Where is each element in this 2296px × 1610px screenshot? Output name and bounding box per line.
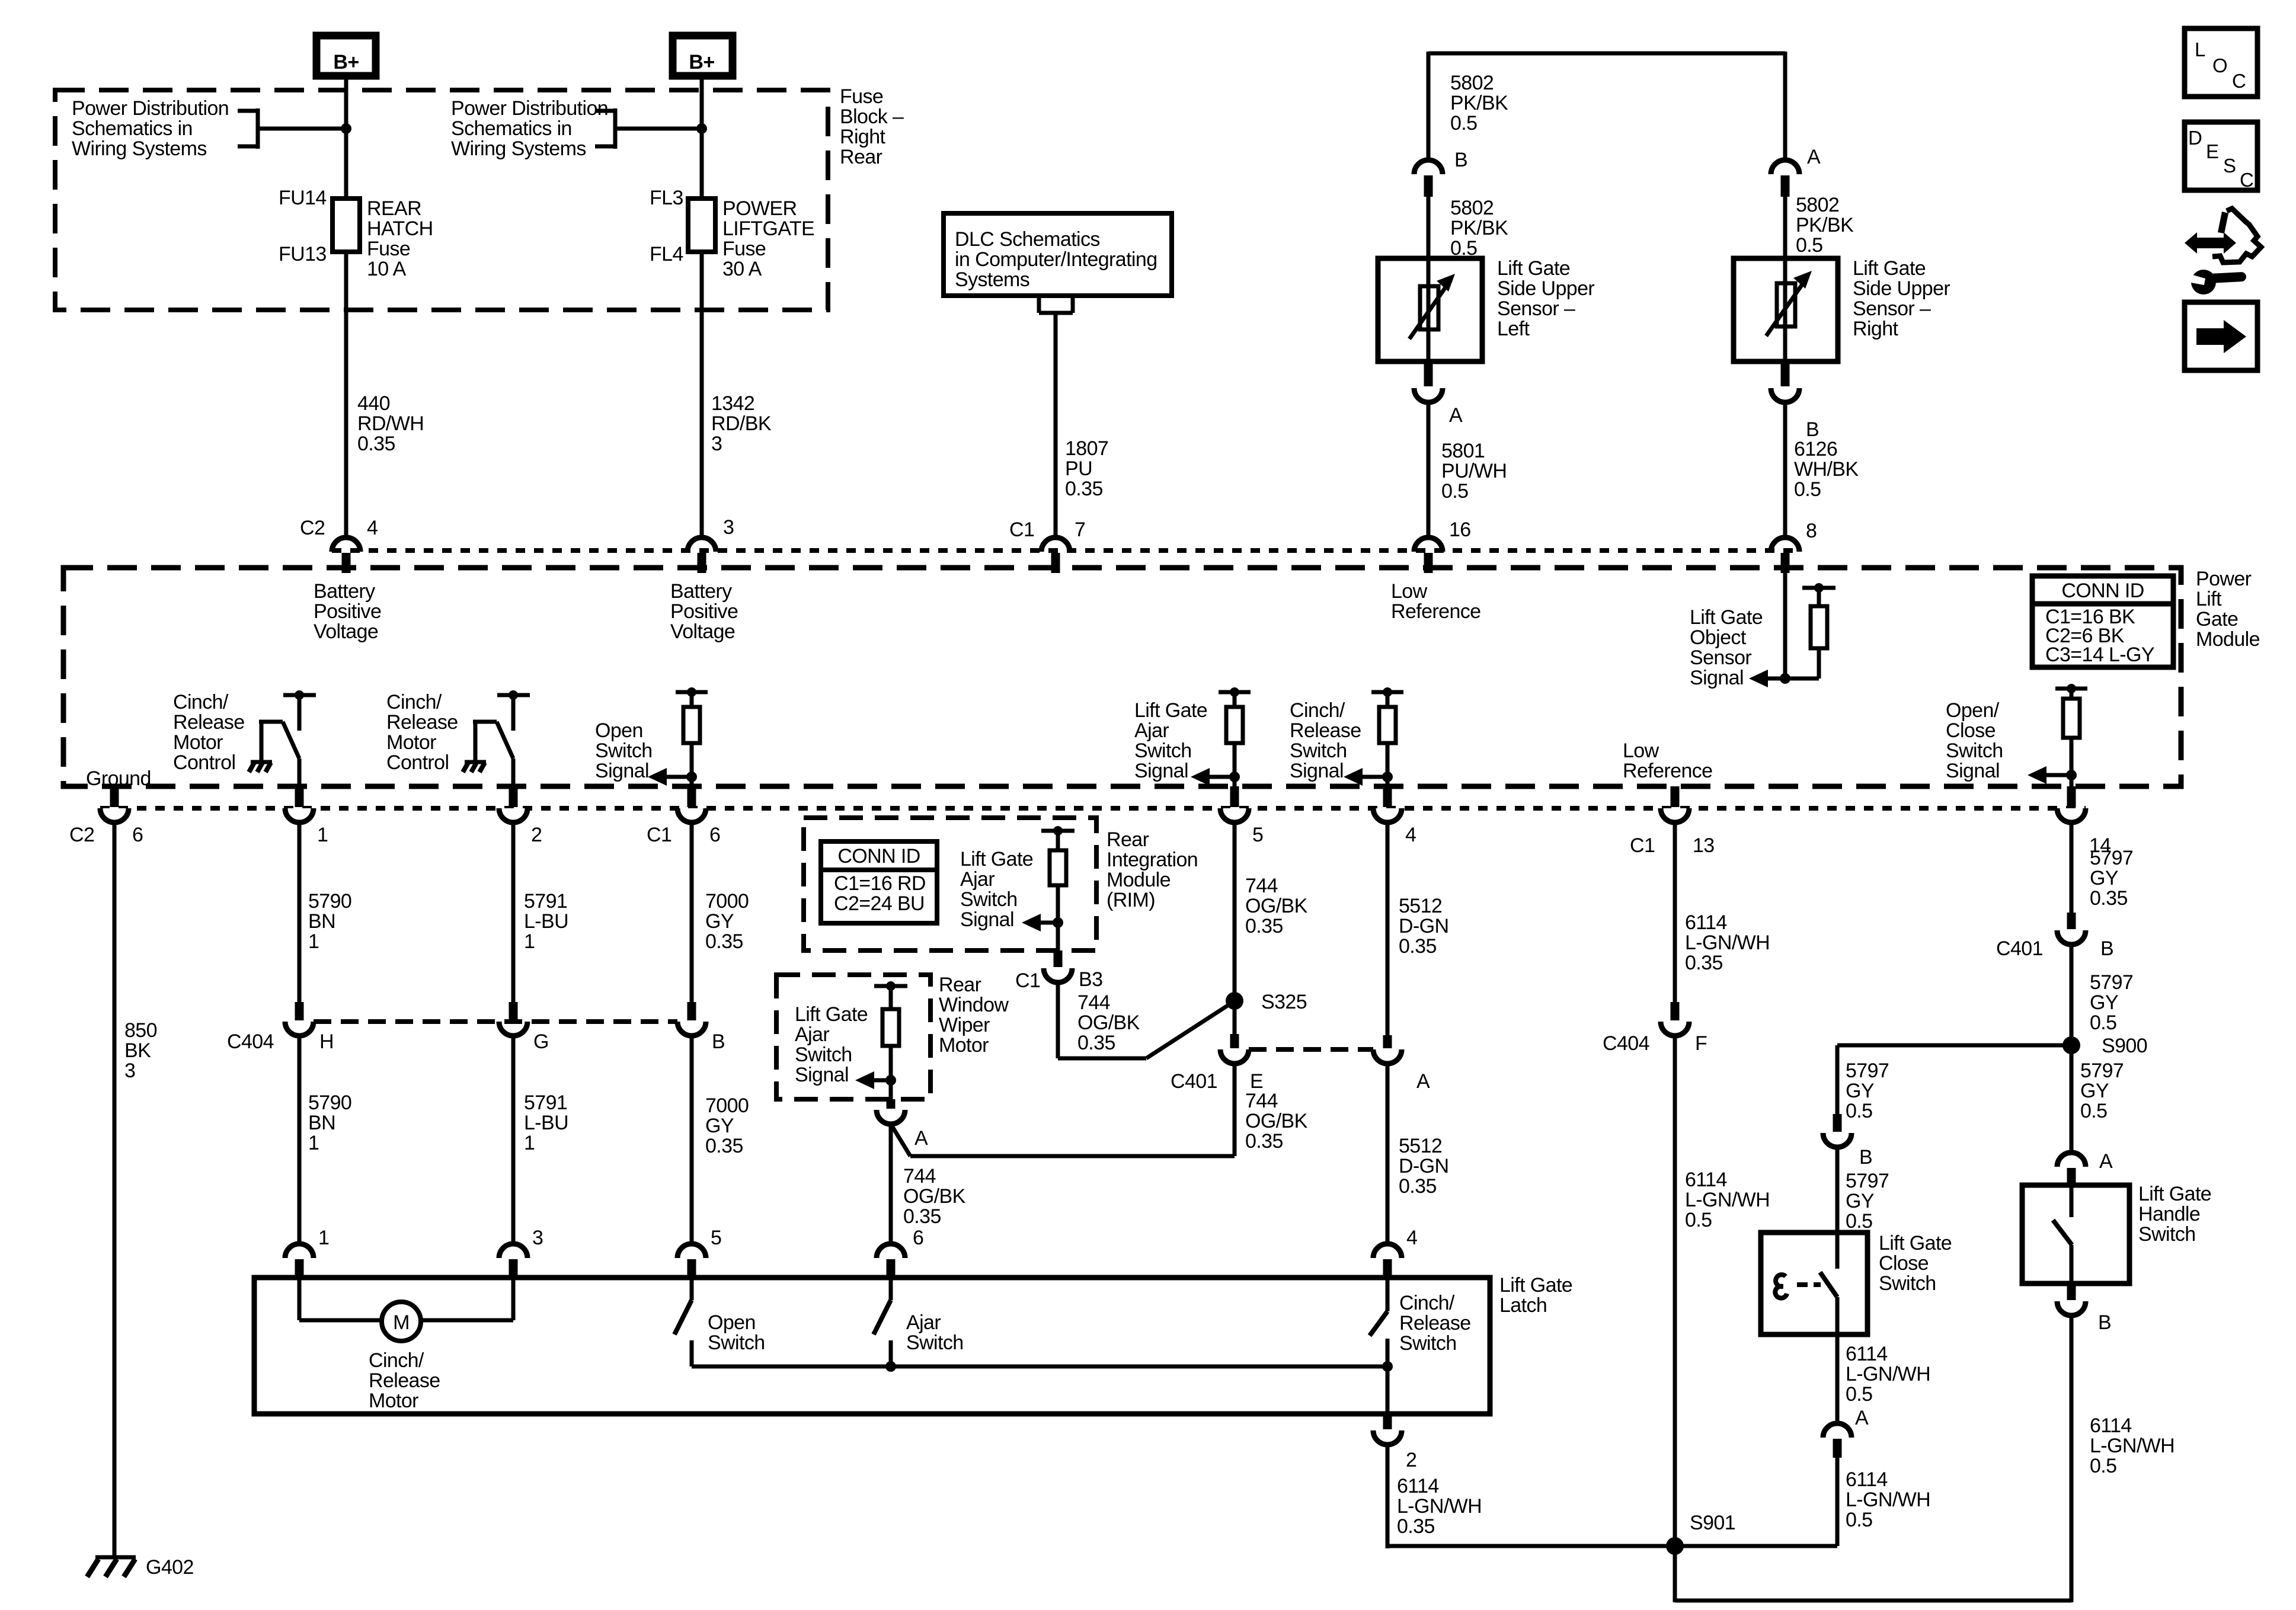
svg-text:HATCH: HATCH xyxy=(367,217,433,240)
svg-text:Gate: Gate xyxy=(2196,608,2238,630)
connector C404 H xyxy=(285,1002,334,1053)
svg-text:Power Distribution: Power Distribution xyxy=(451,97,608,120)
svg-text:A: A xyxy=(2099,1150,2113,1173)
wire C404 B to latch pin 5 xyxy=(690,1036,694,1245)
sensor left lower arc A xyxy=(1414,388,1443,402)
bracket from note 1 xyxy=(238,108,258,149)
svg-text:Signal: Signal xyxy=(795,1064,849,1086)
ajar switch (latch) xyxy=(874,1278,891,1366)
svg-text:OG/BK: OG/BK xyxy=(903,1185,966,1208)
svg-text:Switch: Switch xyxy=(960,888,1018,911)
module dotted connector line (top row) xyxy=(332,548,1799,553)
connector C401 B tick xyxy=(2067,913,2076,929)
svg-text:0.5: 0.5 xyxy=(2090,1012,2116,1034)
rear integration module dashed box xyxy=(804,818,1096,950)
svg-text:Power Distribution: Power Distribution xyxy=(72,97,229,120)
latch pin 2 arc xyxy=(1373,1430,1402,1445)
svg-text:4: 4 xyxy=(367,517,378,539)
label FU14 xyxy=(279,187,327,209)
svg-text:0.5: 0.5 xyxy=(2080,1100,2107,1122)
open switch signal resistor xyxy=(648,687,708,786)
latch connector pin 6 xyxy=(877,1244,905,1279)
svg-text:5797: 5797 xyxy=(2090,847,2133,869)
svg-text:Rear: Rear xyxy=(840,146,882,168)
connector B arc (handle) xyxy=(2057,1301,2086,1315)
svg-text:Switch: Switch xyxy=(795,1044,852,1066)
icon box DESC xyxy=(2185,122,2257,191)
svg-text:Reference: Reference xyxy=(1391,600,1480,623)
RIM ajar switch signal resistor xyxy=(1022,826,1075,950)
svg-text:Lift Gate: Lift Gate xyxy=(1879,1232,1952,1254)
svg-text:1: 1 xyxy=(308,1132,319,1154)
svg-text:C: C xyxy=(2240,169,2253,191)
svg-text:2: 2 xyxy=(1406,1449,1416,1471)
svg-text:Control: Control xyxy=(173,751,235,774)
svg-text:GY: GY xyxy=(705,910,734,933)
label Battery Positive Voltage (2) xyxy=(670,580,738,643)
svg-text:Lift Gate: Lift Gate xyxy=(960,848,1033,870)
wire pin 2 to S901 xyxy=(1387,1445,1837,1548)
svg-text:DLC Schematics: DLC Schematics xyxy=(955,228,1100,251)
label conn B (sensor left) xyxy=(1454,149,1467,171)
fuse FL3/FL4 POWER LIFTGATE 30A xyxy=(688,199,715,252)
label conn B (sensor right lower) xyxy=(1806,418,1819,441)
svg-text:5797: 5797 xyxy=(1846,1170,1889,1192)
wire B+2 to fuse FL3 xyxy=(700,79,704,199)
svg-text:Cinch/: Cinch/ xyxy=(386,691,442,713)
label Fuse Block - Right Rear xyxy=(840,85,904,168)
svg-text:Ajar: Ajar xyxy=(795,1023,829,1046)
label module pin 4 xyxy=(1405,824,1416,846)
svg-text:7000: 7000 xyxy=(705,1094,749,1117)
wire pin1 to C404 H xyxy=(298,822,302,1003)
svg-text:1342: 1342 xyxy=(711,392,754,415)
lift gate close switch box xyxy=(1761,1233,1868,1334)
svg-text:B: B xyxy=(1859,1146,1872,1169)
wire conn A to S901 corner xyxy=(1835,1458,1840,1546)
svg-text:Wiring Systems: Wiring Systems xyxy=(451,137,586,160)
connector A arc (below close sw) xyxy=(1823,1423,1851,1438)
cinch/release motor control relay switch 1 xyxy=(249,690,316,786)
svg-text:BK: BK xyxy=(124,1039,151,1062)
wire B+1 to fuse FU14 xyxy=(344,79,348,199)
connector B tick (sensor left) xyxy=(1424,175,1433,197)
svg-text:Ajar: Ajar xyxy=(960,868,994,891)
svg-text:0.35: 0.35 xyxy=(1065,478,1103,500)
connector C401 A arc xyxy=(1373,1049,1402,1064)
svg-text:3: 3 xyxy=(723,516,734,539)
svg-text:S901: S901 xyxy=(1690,1512,1735,1534)
svg-text:Lift Gate: Lift Gate xyxy=(1499,1274,1572,1297)
svg-text:0.5: 0.5 xyxy=(1846,1383,1872,1406)
lift gate object sensor resistor stub xyxy=(1785,583,1835,678)
label module pin 2 xyxy=(531,824,542,846)
svg-text:E: E xyxy=(2206,140,2218,162)
svg-text:Switch: Switch xyxy=(708,1331,765,1354)
svg-text:0.5: 0.5 xyxy=(1441,480,1468,502)
svg-text:Ajar: Ajar xyxy=(906,1311,941,1334)
label Open Switch xyxy=(708,1311,765,1354)
svg-text:B3: B3 xyxy=(1079,968,1102,991)
svg-text:5790: 5790 xyxy=(308,1092,351,1114)
wire fuse FL4 to connector pin 3 xyxy=(700,252,704,537)
label Cinch/Release Switch (latch) xyxy=(1399,1292,1471,1355)
label Lift Gate Ajar Switch Signal (wiper) xyxy=(795,1003,868,1086)
svg-text:M: M xyxy=(393,1311,410,1334)
svg-text:Cinch/: Cinch/ xyxy=(173,691,229,713)
svg-text:PK/BK: PK/BK xyxy=(1450,92,1508,114)
svg-text:GY: GY xyxy=(1846,1080,1874,1102)
svg-text:B: B xyxy=(1454,149,1467,171)
svg-text:Lift Gate: Lift Gate xyxy=(795,1003,868,1026)
connector C401 B arc xyxy=(2057,930,2086,945)
icon box arrow (next page) xyxy=(2185,302,2257,370)
svg-text:LIFTGATE: LIFTGATE xyxy=(722,217,814,240)
label Lift Gate Ajar Switch Signal (module) xyxy=(1134,699,1207,782)
svg-text:C401: C401 xyxy=(1171,1070,1217,1093)
svg-text:RD/WH: RD/WH xyxy=(357,412,424,435)
svg-text:A: A xyxy=(1855,1407,1869,1429)
svg-text:Release: Release xyxy=(386,711,458,734)
svg-text:L-GN/WH: L-GN/WH xyxy=(1846,1489,1930,1511)
wire label 744 OG/BK 0.35 (B3) xyxy=(1077,991,1140,1054)
svg-text:Reference: Reference xyxy=(1623,760,1712,782)
label conn E xyxy=(1250,1070,1263,1093)
label S901 xyxy=(1690,1512,1735,1534)
svg-text:0.35: 0.35 xyxy=(357,433,395,455)
svg-text:6114: 6114 xyxy=(1685,911,1727,934)
wire label 5791 L-BU 1 (upper) xyxy=(524,890,568,953)
svg-text:RD/BK: RD/BK xyxy=(711,412,772,435)
arrow object sensor signal xyxy=(1749,670,1785,687)
label conn A (wiper) xyxy=(914,1127,928,1150)
svg-text:744: 744 xyxy=(1077,991,1110,1014)
label FL3 xyxy=(650,187,683,209)
svg-text:744: 744 xyxy=(1245,1090,1278,1112)
svg-text:G402: G402 xyxy=(146,1556,194,1579)
svg-text:POWER: POWER xyxy=(722,197,797,220)
wire label 5790 BN 1 (upper) xyxy=(308,890,351,953)
latch lower rail wire xyxy=(692,1365,1387,1369)
connector A tick (handle) xyxy=(2067,1168,2076,1186)
label Open/Close Switch Signal xyxy=(1946,699,2003,782)
junction S901 xyxy=(1666,1537,1684,1555)
svg-text:5512: 5512 xyxy=(1399,1135,1442,1157)
connector pin 3 arc xyxy=(687,537,716,552)
svg-text:A: A xyxy=(1449,404,1463,427)
label Lift Gate Close Switch xyxy=(1879,1232,1952,1295)
svg-text:Open: Open xyxy=(708,1311,756,1334)
svg-text:L-GN/WH: L-GN/WH xyxy=(1846,1363,1930,1385)
svg-text:3: 3 xyxy=(124,1060,135,1082)
svg-text:Switch: Switch xyxy=(1290,740,1347,762)
svg-text:Sensor: Sensor xyxy=(1690,646,1751,669)
label pin 4 xyxy=(367,517,378,539)
wire bracket2 to B+2 wire xyxy=(615,127,702,131)
label module pin 14 xyxy=(2089,834,2111,857)
label POWER LIFTGATE Fuse 30 A xyxy=(722,197,814,280)
svg-text:0.35: 0.35 xyxy=(705,1135,743,1157)
fuse block dashed box (Fuse Block - Right Rear) xyxy=(55,90,828,310)
module dotted connector line (bottom row) xyxy=(100,806,2086,811)
connector C1 pin 7 pin tick xyxy=(1051,553,1060,573)
latch connector pin 3 xyxy=(499,1244,527,1279)
svg-text:4: 4 xyxy=(1406,1227,1417,1249)
label Low Reference (pin13) xyxy=(1623,740,1712,782)
connector C2 pin 4 arc xyxy=(332,537,360,552)
svg-text:0.5: 0.5 xyxy=(1685,1209,1712,1231)
svg-text:C1: C1 xyxy=(647,824,671,846)
svg-text:5: 5 xyxy=(1252,824,1263,846)
wire C1 B3 to S325 xyxy=(1058,982,1232,1058)
svg-text:Sensor –: Sensor – xyxy=(1497,297,1575,320)
svg-text:Release: Release xyxy=(173,711,245,734)
wire module pin13 to C404 F xyxy=(1673,822,1677,1003)
label pin 8 xyxy=(1806,520,1817,542)
svg-text:0.35: 0.35 xyxy=(1399,1175,1437,1198)
svg-text:13: 13 xyxy=(1693,834,1715,857)
wire label 6114 L-GN/WH 0.5 (handle) xyxy=(2090,1414,2175,1477)
junction S325 xyxy=(1226,992,1243,1010)
svg-text:4: 4 xyxy=(1405,824,1416,846)
module bottom connector pin 4 xyxy=(1373,786,1402,822)
wire top bus 5802 joining sensors xyxy=(1428,52,1785,160)
wire label 5790 BN 1 (lower) xyxy=(308,1092,351,1154)
module bottom connector pin 6 xyxy=(100,786,129,822)
lift gate handle switch box xyxy=(2022,1185,2129,1283)
svg-text:3: 3 xyxy=(711,433,722,455)
svg-text:5791: 5791 xyxy=(524,1092,567,1114)
label Lift Gate Side Upper Sensor Right xyxy=(1853,257,1950,340)
label latch pin 4 xyxy=(1406,1227,1417,1249)
svg-text:B: B xyxy=(2100,937,2113,960)
lift gate ajar switch signal resistor (module) xyxy=(1191,687,1251,786)
svg-text:6: 6 xyxy=(913,1227,923,1249)
svg-text:5: 5 xyxy=(711,1227,721,1249)
label conn A (C401) xyxy=(1416,1070,1430,1093)
label conn A (sensor right) xyxy=(1807,146,1821,168)
DLC note text xyxy=(955,228,1157,291)
svg-text:Low: Low xyxy=(1623,740,1659,762)
svg-text:L: L xyxy=(2195,39,2205,60)
module bottom connector pin 1 xyxy=(285,786,314,822)
svg-text:6: 6 xyxy=(709,824,720,846)
motor M circle xyxy=(382,1302,421,1341)
svg-text:GY: GY xyxy=(2090,867,2118,889)
wire S900 down to handle switch A xyxy=(2070,1045,2074,1154)
svg-text:1: 1 xyxy=(317,824,328,846)
wire label 5797 GY 0.5 (close sw) xyxy=(1846,1170,1889,1233)
power lift gate module dashed box xyxy=(63,568,2181,786)
label C1 (pin7) xyxy=(1009,518,1034,541)
connector B tick (handle) xyxy=(2067,1283,2076,1300)
wire label 6114 L-GN/WH 0.5 (close sw pigtail) xyxy=(1846,1343,1930,1406)
svg-text:Schematics in: Schematics in xyxy=(72,117,193,140)
label latch pin 3 xyxy=(532,1227,543,1249)
connector C404 F arc xyxy=(1661,1022,1689,1036)
wire label 744 OG/BK 0.35 (pin6) xyxy=(903,1165,966,1228)
label Rear Window Wiper Motor xyxy=(939,974,1009,1057)
svg-text:REAR: REAR xyxy=(367,197,421,220)
label C404 (right) xyxy=(1603,1032,1649,1055)
svg-text:744: 744 xyxy=(903,1165,936,1188)
wire label 744 OG/BK 0.35 (pin5) xyxy=(1245,875,1308,937)
cinch/release motor control relay switch 2 xyxy=(463,690,530,786)
wire label 5797 GY 0.5 (branch) xyxy=(1846,1060,1889,1122)
svg-text:5801: 5801 xyxy=(1441,440,1485,462)
wiper ajar switch signal resistor xyxy=(855,981,907,1099)
svg-text:Motor: Motor xyxy=(386,731,436,754)
CONN ID table (RIM) xyxy=(821,841,937,923)
svg-text:L-GN/WH: L-GN/WH xyxy=(1397,1495,1482,1518)
svg-text:Lift Gate: Lift Gate xyxy=(1690,606,1763,629)
module bottom connector pin 2 xyxy=(499,786,527,822)
close switch delay symbol xyxy=(1775,1275,1821,1298)
connector pin 16 arc xyxy=(1414,537,1443,552)
wire sensor right to pin 8 xyxy=(1783,402,1787,537)
svg-text:Close: Close xyxy=(1879,1252,1929,1275)
svg-text:Lift Gate: Lift Gate xyxy=(1497,257,1570,280)
cinch/release switch (latch) xyxy=(1370,1280,1387,1366)
svg-text:Cinch/: Cinch/ xyxy=(1290,699,1345,722)
label conn B (C401) xyxy=(2100,937,2113,960)
svg-text:S: S xyxy=(2223,155,2236,177)
svg-text:C1=16 RD: C1=16 RD xyxy=(834,872,926,895)
wire label 5791 L-BU 1 (lower) xyxy=(524,1092,568,1154)
svg-text:0.5: 0.5 xyxy=(1846,1100,1872,1122)
wire C401 B to S900 xyxy=(2070,945,2074,1045)
svg-text:BN: BN xyxy=(308,910,335,933)
svg-text:440: 440 xyxy=(357,392,390,415)
svg-text:Latch: Latch xyxy=(1499,1294,1547,1317)
svg-text:Open/: Open/ xyxy=(1946,699,2000,722)
wire C404 G to latch pin 3 xyxy=(511,1036,516,1245)
svg-text:6114: 6114 xyxy=(1846,1343,1888,1365)
label Battery Positive Voltage (1) xyxy=(314,580,381,643)
label conn A (sensor left lower) xyxy=(1449,404,1463,427)
connector C401 A tick xyxy=(1383,1035,1392,1048)
svg-text:5790: 5790 xyxy=(308,890,351,913)
wire DLC to connector C1-7 xyxy=(1054,313,1058,537)
rear window wiper motor dashed box xyxy=(776,975,930,1099)
module bottom connector pin 5 xyxy=(1220,786,1249,822)
note text Power Distribution Schematics (right) xyxy=(451,97,608,160)
connector A arc (wiper) xyxy=(877,1110,905,1124)
label Cinch/Release Motor Control (2) xyxy=(386,691,458,774)
open switch (latch) xyxy=(674,1278,692,1366)
svg-text:Battery: Battery xyxy=(314,580,375,603)
wire C404 H to latch pin 1 xyxy=(298,1036,302,1245)
svg-text:5512: 5512 xyxy=(1399,895,1442,917)
connector pin 8 tick xyxy=(1781,553,1790,573)
label Low Reference (pin16) xyxy=(1391,580,1480,623)
wire pin2 to C404 G xyxy=(511,822,516,1003)
svg-text:A: A xyxy=(1416,1070,1430,1093)
svg-text:D: D xyxy=(2188,127,2202,149)
svg-text:S900: S900 xyxy=(2102,1035,2147,1057)
svg-text:5797: 5797 xyxy=(2080,1060,2124,1082)
svg-text:BN: BN xyxy=(308,1112,335,1134)
svg-text:Signal: Signal xyxy=(1290,760,1344,782)
wire label 7000 GY 0.35 (lower) xyxy=(705,1094,749,1157)
svg-text:Switch: Switch xyxy=(595,740,653,762)
svg-text:3: 3 xyxy=(532,1227,543,1249)
label Lift Gate Ajar Switch Signal (RIM) xyxy=(960,848,1033,931)
svg-text:Signal: Signal xyxy=(960,908,1014,931)
svg-text:Battery: Battery xyxy=(670,580,732,603)
module bottom connector pin 13 xyxy=(1661,786,1689,822)
power symbol B+ (battery positive) terminal 1 xyxy=(316,36,376,76)
svg-text:Systems: Systems xyxy=(955,268,1029,291)
connector pin 16 tick xyxy=(1424,553,1433,573)
wire label 6126 WH/BK 0.5 xyxy=(1794,438,1859,501)
label FL4 xyxy=(650,243,683,265)
svg-text:C404: C404 xyxy=(1603,1032,1649,1055)
svg-text:Positive: Positive xyxy=(670,600,738,623)
svg-text:Fuse: Fuse xyxy=(367,238,410,260)
label Rear Integration Module RIM xyxy=(1107,828,1198,911)
svg-text:C1: C1 xyxy=(1015,969,1040,992)
wire label 850 BK 3 xyxy=(124,1019,157,1082)
svg-text:Voltage: Voltage xyxy=(314,620,378,643)
label C401 (B) xyxy=(1996,937,2043,960)
connector C401 E tick xyxy=(1230,1034,1239,1048)
svg-text:Integration: Integration xyxy=(1107,849,1198,871)
wire label 5797 GY 0.5 (above S900) xyxy=(2090,971,2133,1034)
svg-text:1: 1 xyxy=(308,930,319,953)
junction dot cinch/release switch xyxy=(1382,1361,1393,1372)
wire sensor left to pin 16 xyxy=(1427,402,1431,537)
label latch pin 6 xyxy=(913,1227,923,1249)
wire B to close switch box xyxy=(1835,1147,1840,1233)
svg-text:Object: Object xyxy=(1690,626,1747,649)
wire C1-6 to C404 B xyxy=(690,822,694,1003)
cinch/release switch signal resistor xyxy=(1344,687,1403,786)
label Cinch/Release Motor Control (1) xyxy=(173,691,245,774)
bracket under DLC box xyxy=(1039,296,1073,313)
note text Power Distribution Schematics (left) xyxy=(72,97,229,160)
svg-text:Lift Gate: Lift Gate xyxy=(1853,257,1926,280)
connector A tick (wiper) xyxy=(887,1099,896,1109)
wire label 6114 L-GN/WH 0.35 (pin13) xyxy=(1685,911,1770,974)
svg-text:D-GN: D-GN xyxy=(1399,1155,1448,1177)
label latch pin 2 xyxy=(1406,1449,1416,1471)
svg-text:0.35: 0.35 xyxy=(1399,935,1437,958)
label C1 (B3) xyxy=(1015,969,1040,992)
svg-text:GY: GY xyxy=(2080,1080,2109,1102)
svg-text:B: B xyxy=(2098,1311,2111,1334)
label B3 xyxy=(1079,968,1102,991)
sensor right thermistor xyxy=(1766,271,1812,336)
svg-text:Signal: Signal xyxy=(595,760,649,782)
svg-text:6114: 6114 xyxy=(1685,1169,1727,1191)
svg-text:1: 1 xyxy=(524,930,535,953)
ground symbol G402 xyxy=(87,1557,136,1577)
sensor right lower tick xyxy=(1781,363,1790,386)
connector C1 B3 arc xyxy=(1044,968,1072,982)
connector C2 pin 4 pin tick xyxy=(342,553,351,573)
wire label 1342 RD/BK 3 xyxy=(711,392,772,455)
svg-text:S325: S325 xyxy=(1261,991,1307,1013)
wire bracket1 to B+1 wire xyxy=(258,127,346,131)
lift gate side upper sensor left box xyxy=(1378,258,1482,361)
svg-text:6114: 6114 xyxy=(1846,1468,1888,1491)
latch connector pin 4 xyxy=(1373,1244,1402,1279)
svg-text:5802: 5802 xyxy=(1796,194,1839,216)
latch connector pin 5 xyxy=(677,1244,706,1279)
connector C1 B3 tick xyxy=(1054,950,1063,967)
svg-text:GY: GY xyxy=(2090,991,2118,1014)
